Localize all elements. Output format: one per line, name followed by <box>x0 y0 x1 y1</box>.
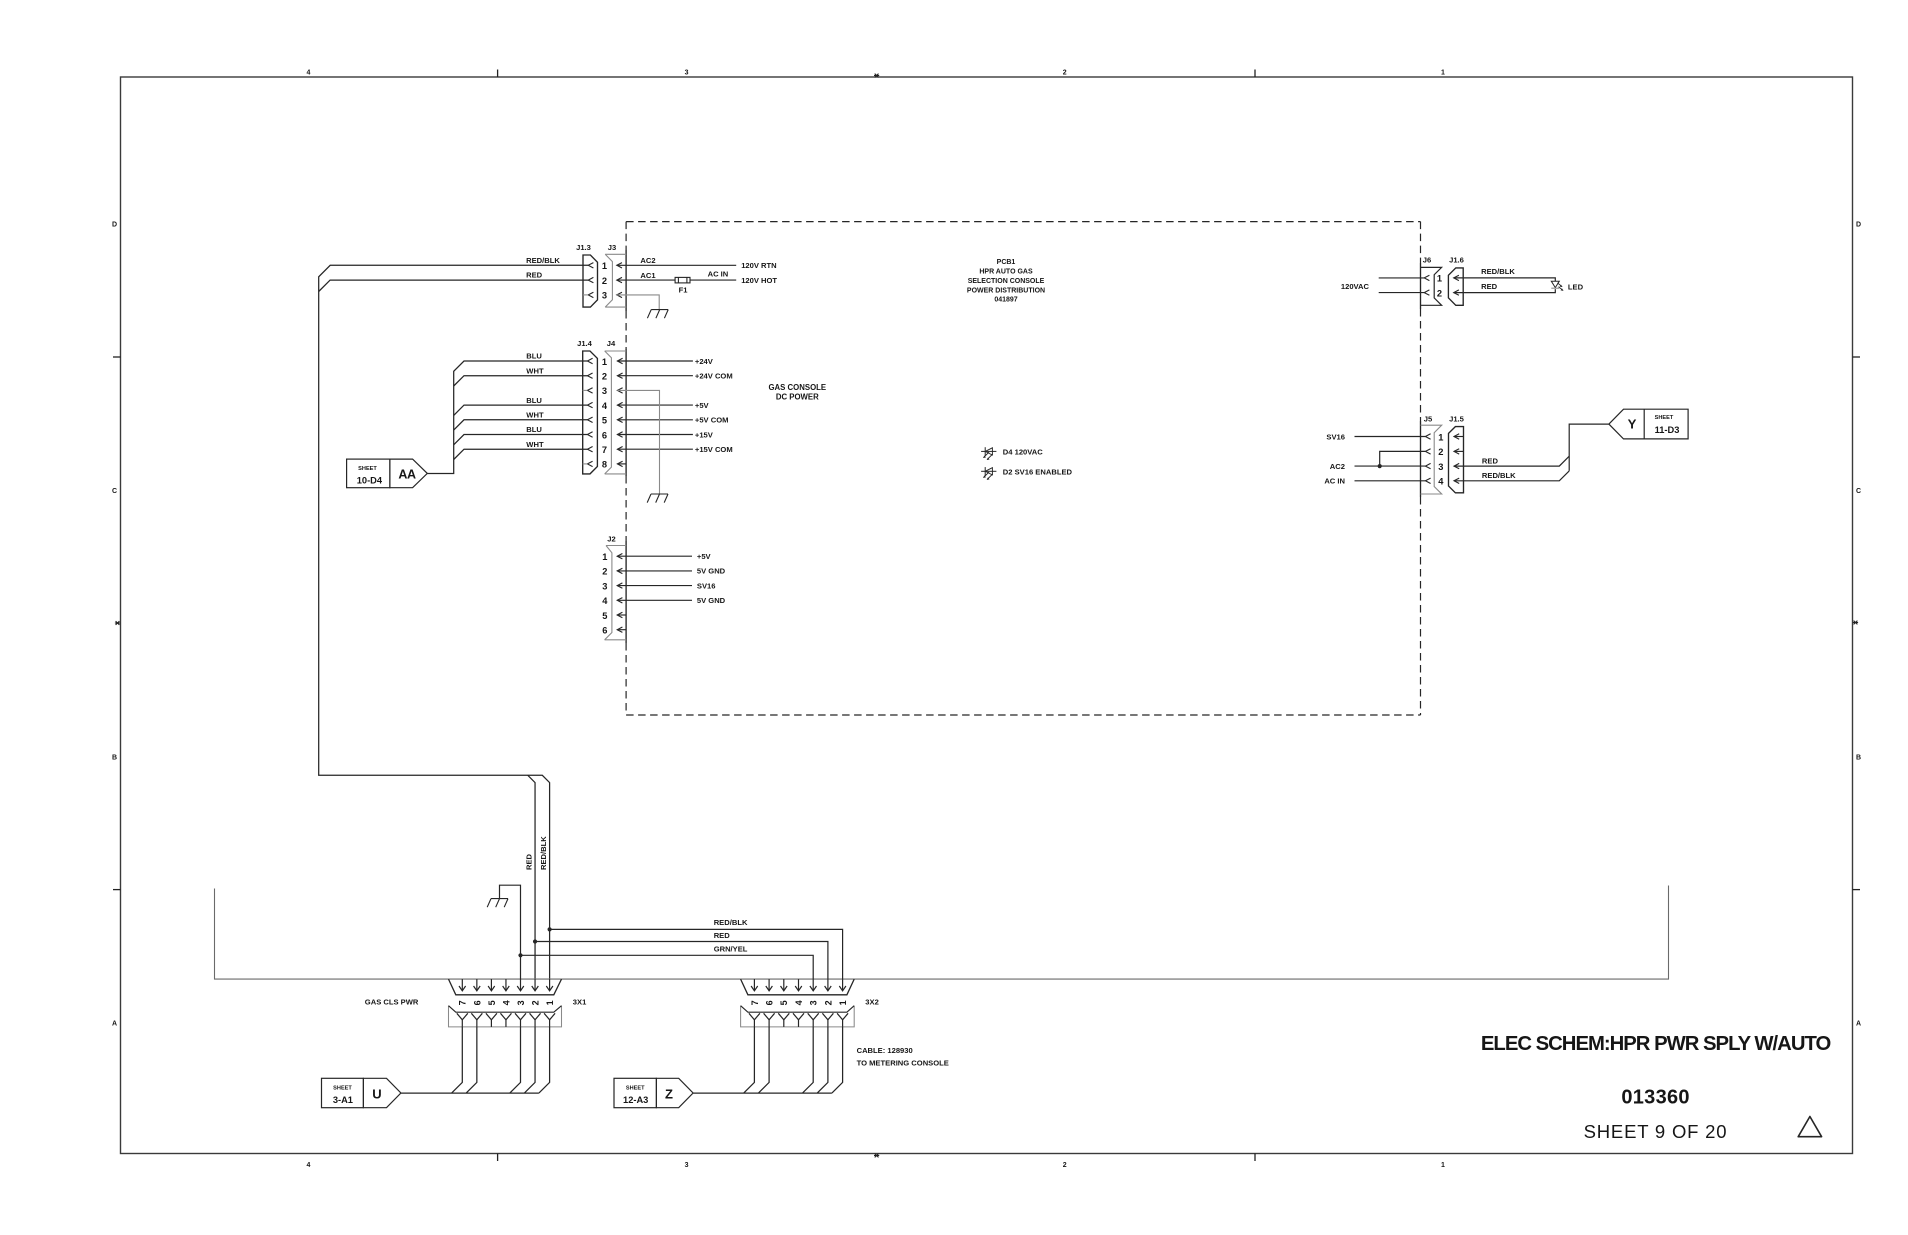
svg-text:AC1: AC1 <box>640 271 656 280</box>
svg-text:J2: J2 <box>607 535 615 544</box>
svg-text:5: 5 <box>602 611 607 621</box>
svg-text:8: 8 <box>602 460 607 470</box>
LED (panel lamp) <box>1551 281 1583 291</box>
svg-text:120V RTN: 120V RTN <box>741 261 776 270</box>
svg-text:D: D <box>1856 222 1861 229</box>
svg-text:1: 1 <box>838 1000 848 1005</box>
connector J6 <box>1421 256 1443 306</box>
svg-text:5: 5 <box>602 416 607 426</box>
svg-text:AA: AA <box>398 467 416 481</box>
svg-text:4: 4 <box>307 1162 311 1169</box>
svg-text:+5V: +5V <box>695 401 710 410</box>
svg-text:2: 2 <box>602 276 607 286</box>
svg-text:RED/BLK: RED/BLK <box>714 918 748 927</box>
svg-text:Y: Y <box>1628 417 1637 432</box>
svg-text:10-D4: 10-D4 <box>357 475 383 485</box>
svg-text:HPR AUTO GAS: HPR AUTO GAS <box>979 269 1033 276</box>
terminal strip 3X1 upper <box>449 979 562 995</box>
svg-text:3: 3 <box>602 386 607 396</box>
connector J5 <box>1421 414 1445 494</box>
svg-text:1: 1 <box>1438 432 1443 442</box>
svg-text:1: 1 <box>602 552 607 562</box>
svg-text:J1.5: J1.5 <box>1449 414 1465 423</box>
svg-text:6: 6 <box>765 1000 775 1005</box>
svg-text:Z: Z <box>665 1086 673 1101</box>
svg-text:4: 4 <box>501 1000 511 1005</box>
svg-text:SV16: SV16 <box>1326 432 1345 441</box>
sheet reference U (3-A1) <box>322 1078 401 1107</box>
svg-text:SHEET: SHEET <box>1655 415 1674 421</box>
terminal strip 3X1 lower <box>449 1006 562 1027</box>
terminal strip 3X2 upper <box>741 979 855 995</box>
svg-text:3: 3 <box>685 1162 689 1169</box>
svg-text:AC IN: AC IN <box>1324 477 1345 486</box>
svg-text:4: 4 <box>307 70 311 77</box>
label CABLE: 128930 TO METERING CONSOLE <box>857 1046 949 1067</box>
svg-text:GAS CONSOLE: GAS CONSOLE <box>768 383 826 392</box>
svg-text:6: 6 <box>602 626 607 636</box>
svg-text:J1.6: J1.6 <box>1449 256 1464 265</box>
svg-text:12-A3: 12-A3 <box>623 1095 648 1105</box>
svg-text:RED/BLK: RED/BLK <box>1482 471 1516 480</box>
svg-text:WHT: WHT <box>526 440 544 449</box>
svg-text:B: B <box>1856 755 1861 762</box>
svg-text:6: 6 <box>472 1000 482 1005</box>
svg-text:J3: J3 <box>608 243 616 252</box>
ground (GRN/YEL chassis) <box>487 885 520 979</box>
svg-text:BLU: BLU <box>526 352 542 361</box>
svg-text:2: 2 <box>1438 447 1443 457</box>
revision triangle <box>1798 1117 1821 1137</box>
svg-text:5: 5 <box>779 1000 789 1005</box>
wires 120VAC into J6 <box>1341 278 1424 293</box>
svg-text:3: 3 <box>602 291 607 301</box>
wire RED from J1.3 pin2 down to 3X1 pin2 <box>319 280 589 979</box>
svg-text:3: 3 <box>809 1000 819 1005</box>
svg-text:1: 1 <box>1441 70 1445 77</box>
svg-text:J1.4: J1.4 <box>577 339 593 348</box>
svg-text:120V HOT: 120V HOT <box>741 276 777 285</box>
svg-text:DC POWER: DC POWER <box>776 392 819 401</box>
svg-text:LED: LED <box>1568 282 1584 291</box>
connector J1.4 <box>577 339 597 474</box>
svg-text:7: 7 <box>458 1000 468 1005</box>
junction + wire RED to 3X2 pin2 <box>533 931 828 979</box>
3X2 pin numbers <box>750 1000 848 1005</box>
connector J1.3 <box>576 243 597 307</box>
svg-text:D: D <box>112 222 117 229</box>
wire RED/BLK J1.6 pin1 to LED <box>1454 267 1556 281</box>
svg-text:5V GND: 5V GND <box>697 596 726 605</box>
svg-text:GAS CLS PWR: GAS CLS PWR <box>365 998 419 1007</box>
PCB1 dashed board outline <box>626 222 1420 715</box>
svg-text:RED: RED <box>714 931 731 940</box>
svg-text:2: 2 <box>530 1000 540 1005</box>
svg-text:041897: 041897 <box>994 297 1017 304</box>
svg-text:3: 3 <box>1438 462 1443 472</box>
svg-text:1: 1 <box>602 261 607 271</box>
svg-text:3: 3 <box>602 581 607 591</box>
title text <box>1481 1033 1831 1142</box>
svg-text:5V GND: 5V GND <box>697 567 726 576</box>
svg-text:013360: 013360 <box>1621 1087 1690 1109</box>
svg-text:BLU: BLU <box>526 396 542 405</box>
svg-text:GRN/YEL: GRN/YEL <box>714 944 748 953</box>
svg-text:A: A <box>112 1021 117 1028</box>
svg-text:3: 3 <box>516 1000 526 1005</box>
svg-text:TO METERING CONSOLE: TO METERING CONSOLE <box>857 1058 949 1067</box>
svg-text:2: 2 <box>1063 1162 1067 1169</box>
svg-text:4: 4 <box>602 401 608 411</box>
svg-text:3-A1: 3-A1 <box>333 1095 353 1105</box>
svg-text:1: 1 <box>1441 1162 1445 1169</box>
svg-text:AC IN: AC IN <box>708 270 729 279</box>
svg-text:SV16: SV16 <box>697 581 716 590</box>
svg-text:RED/BLK: RED/BLK <box>1481 267 1515 276</box>
svg-text:D4 120VAC: D4 120VAC <box>1003 448 1043 457</box>
svg-text:2: 2 <box>823 1000 833 1005</box>
svg-text:POWER DISTRIBUTION: POWER DISTRIBUTION <box>967 287 1045 294</box>
svg-text:2: 2 <box>602 372 607 382</box>
ground (J4 pin 3) <box>647 494 668 503</box>
LED D2 indicator <box>981 467 1072 480</box>
svg-text:PCB1: PCB1 <box>997 259 1016 266</box>
svg-text:7: 7 <box>602 445 607 455</box>
svg-text:1: 1 <box>1437 274 1442 284</box>
svg-text:SHEET: SHEET <box>626 1086 645 1092</box>
LED D4 indicator <box>981 447 1043 460</box>
svg-text:+15V: +15V <box>695 430 714 439</box>
svg-text:6: 6 <box>602 430 607 440</box>
wire AC2 into J5 pin3 with jog to pin2 <box>1330 451 1426 471</box>
connector J4 <box>602 339 626 474</box>
svg-text:RED/BLK: RED/BLK <box>526 256 560 265</box>
svg-text:SELECTION CONSOLE: SELECTION CONSOLE <box>968 278 1045 285</box>
wire J3 pin3 to ground <box>617 295 659 310</box>
svg-text:RED: RED <box>525 853 534 870</box>
wire SV16 into J5 pin1 <box>1326 432 1425 441</box>
svg-text:SHEET: SHEET <box>333 1086 352 1092</box>
wires J2 outputs <box>617 552 725 630</box>
wire bundle J1.4 to sheet ref AA <box>427 361 587 474</box>
svg-text:3X2: 3X2 <box>865 998 879 1007</box>
svg-text:7: 7 <box>750 1000 760 1005</box>
svg-text:WHT: WHT <box>526 411 544 420</box>
wire bundle to sheet ref Y <box>1569 424 1609 471</box>
wire J4 pin3 to ground <box>617 390 659 494</box>
connector J1.5 <box>1449 414 1465 493</box>
svg-text:J5: J5 <box>1424 414 1433 423</box>
junction + wire GRN/YEL to 3X2 pin3 <box>518 944 813 979</box>
cable bracket bus line <box>215 886 1669 980</box>
svg-text:RED: RED <box>1482 456 1499 465</box>
svg-text:D2 SV16 ENABLED: D2 SV16 ENABLED <box>1003 467 1073 476</box>
labels BLU/WHT wire colors <box>526 352 544 449</box>
svg-text:3X1: 3X1 <box>573 998 587 1007</box>
svg-text:+15V COM: +15V COM <box>695 445 733 454</box>
svg-text:J6: J6 <box>1423 256 1431 265</box>
svg-text:2: 2 <box>602 567 607 577</box>
junction + wire RED/BLK to 3X2 pin1 <box>548 918 843 979</box>
wire RED/BLK from J1.3 pin1 down to 3X1 pin1 <box>319 265 589 979</box>
svg-text:4: 4 <box>794 1000 804 1005</box>
svg-text:+5V COM: +5V COM <box>695 416 729 425</box>
svg-text:ELEC SCHEM:HPR PWR SPLY W/AUTO: ELEC SCHEM:HPR PWR SPLY W/AUTO <box>1481 1033 1831 1055</box>
svg-text:AC2: AC2 <box>640 256 655 265</box>
wire RED/BLK from J1.5 pin4 to Y bundle <box>1454 471 1569 481</box>
svg-text:AC2: AC2 <box>1330 462 1345 471</box>
svg-text:F1: F1 <box>679 286 689 295</box>
svg-text:SHEET: SHEET <box>358 466 377 472</box>
wires J4 DC outputs <box>617 357 732 464</box>
connector J3 <box>602 243 626 307</box>
svg-text:+24V: +24V <box>695 357 714 366</box>
svg-text:A: A <box>1856 1021 1861 1028</box>
svg-text:2: 2 <box>1437 288 1442 298</box>
svg-text:3: 3 <box>685 70 689 77</box>
svg-text:C: C <box>112 488 117 495</box>
svg-text:+5V: +5V <box>697 552 712 561</box>
wire bundle 3X1 to sheet ref U <box>401 1027 550 1093</box>
svg-text:RED: RED <box>526 271 543 280</box>
svg-text:U: U <box>372 1086 381 1101</box>
fuse F1 <box>675 277 690 294</box>
wire RED from J1.5 pin3 to Y bundle <box>1454 456 1569 466</box>
svg-text:+24V COM: +24V COM <box>695 372 733 381</box>
svg-text:120VAC: 120VAC <box>1341 282 1370 291</box>
sheet reference Y (11-D3) <box>1609 409 1688 439</box>
svg-text:2: 2 <box>1063 70 1067 77</box>
svg-text:1: 1 <box>602 357 607 367</box>
wire bundle 3X2 to sheet ref Z <box>693 1027 843 1093</box>
terminal strip 3X2 lower <box>741 1006 855 1027</box>
svg-text:C: C <box>1856 488 1861 495</box>
wire AC2 (120V RTN) <box>617 256 777 270</box>
ground (J3 pin 3) <box>647 310 668 319</box>
svg-text:RED/BLK: RED/BLK <box>539 836 548 870</box>
connector J1.6 <box>1448 256 1463 306</box>
GAS CONSOLE DC POWER label <box>768 383 826 402</box>
svg-text:CABLE: 128930: CABLE: 128930 <box>857 1046 913 1055</box>
svg-text:BLU: BLU <box>526 425 542 434</box>
sheet reference Z (12-A3) <box>614 1078 693 1107</box>
svg-text:1: 1 <box>545 1000 555 1005</box>
svg-text:11-D3: 11-D3 <box>1655 425 1680 435</box>
svg-text:5: 5 <box>487 1000 497 1005</box>
wire RED J1.6 pin2 to LED <box>1454 282 1556 293</box>
3X1 pin numbers <box>458 1000 555 1005</box>
svg-text:SHEET 9 OF 20: SHEET 9 OF 20 <box>1584 1121 1728 1142</box>
svg-text:WHT: WHT <box>526 366 544 375</box>
svg-text:RED: RED <box>1481 282 1498 291</box>
svg-text:B: B <box>112 755 117 762</box>
wire AC1 with fuse to 120V HOT <box>617 270 778 286</box>
connector J2 <box>602 535 626 640</box>
svg-text:4: 4 <box>602 596 608 606</box>
svg-text:J4: J4 <box>607 339 616 348</box>
PCB1 board label text <box>967 259 1045 304</box>
wire AC IN into J5 pin4 <box>1324 477 1425 486</box>
svg-text:J1.3: J1.3 <box>576 243 591 252</box>
sheet reference AA (10-D4) <box>347 459 428 488</box>
svg-text:4: 4 <box>1438 477 1444 487</box>
